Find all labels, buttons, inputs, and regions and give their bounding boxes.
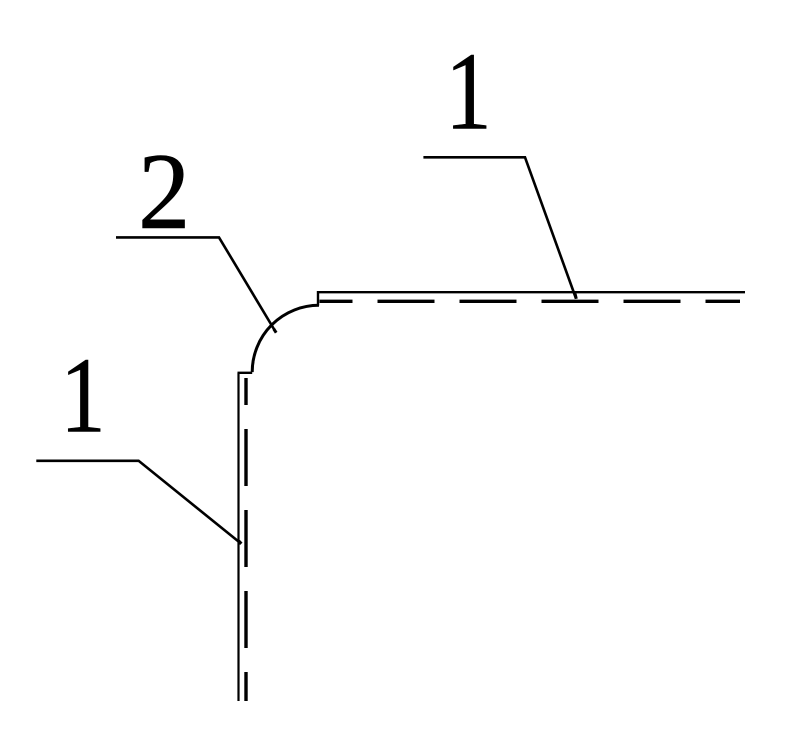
- horizontal dashed line (hidden edge of part 1): [320, 300, 741, 303]
- horizontal step at top of vertical line: [238, 372, 253, 374]
- label 2 (corner reference numeral): [138, 132, 190, 252]
- leader line for left label 1: [36, 461, 241, 544]
- tip thickening of left leader: [239, 541, 242, 544]
- svg-text:2: 2: [138, 132, 190, 252]
- leader line for top label 1: [423, 157, 576, 298]
- horizontal solid line (top edge of part 1): [318, 291, 745, 293]
- tip thickening of label 2 leader: [274, 329, 276, 333]
- vertical dashed line (hidden edge of part 1): [244, 378, 247, 701]
- vertical solid line (left edge of part 1): [237, 373, 239, 701]
- svg-text:1: 1: [445, 31, 492, 153]
- label 1 (top reference numeral): [445, 31, 492, 153]
- leader line for label 2: [116, 237, 276, 332]
- label 1 (left reference numeral): [60, 335, 105, 455]
- svg-text:1: 1: [60, 335, 105, 455]
- corner arc (part 2): [252, 305, 319, 372]
- vertical step at left end of horizontal line: [317, 291, 319, 306]
- tip thickening of top leader: [575, 294, 576, 299]
